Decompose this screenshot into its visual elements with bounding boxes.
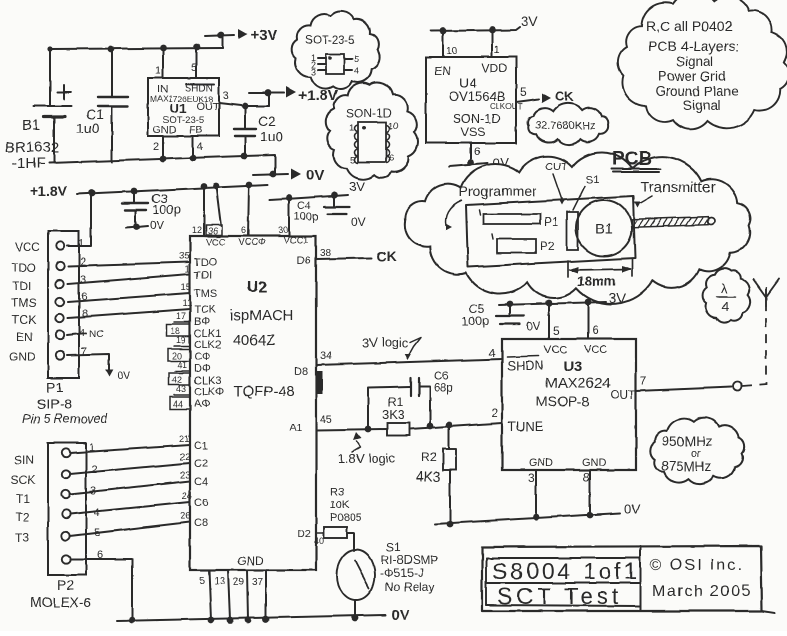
pin circle P1-4 xyxy=(56,298,64,306)
node pin4-0V xyxy=(190,155,197,162)
svg-text:VCC: VCC xyxy=(15,240,41,254)
power 3V rail U3 xyxy=(499,290,627,306)
node +3V junction xyxy=(218,32,225,39)
pin 37 U2 bottom xyxy=(252,570,266,620)
node rail P2-6 xyxy=(129,617,136,624)
pin circle P1-5 xyxy=(56,314,64,322)
wire P2 pin6 to 0V xyxy=(70,559,132,620)
pin 5 U4 CLKOUT xyxy=(516,85,539,102)
svg-text:OUT: OUT xyxy=(610,388,636,402)
node U3 gnd3 xyxy=(533,514,540,521)
svg-text:875MHz: 875MHz xyxy=(661,459,712,474)
callout cloud SON-1D xyxy=(326,83,418,180)
svg-text:+1.8V: +1.8V xyxy=(298,87,338,104)
svg-text:TMS: TMS xyxy=(11,296,36,310)
svg-text:MAX2624: MAX2624 xyxy=(545,375,611,392)
pin circle P2-1 xyxy=(62,449,70,457)
pin 13 U2 bottom xyxy=(214,570,230,620)
wire EN NC stub xyxy=(67,329,103,340)
svg-text:4064Z: 4064Z xyxy=(233,332,276,349)
svg-text:T2: T2 xyxy=(15,510,29,524)
svg-text:3V logic: 3V logic xyxy=(362,335,409,350)
node rail-B1 xyxy=(47,46,52,51)
pin 2 U1 xyxy=(153,136,163,159)
antenna symbol xyxy=(753,279,779,306)
node U4 pin10 tap xyxy=(440,28,447,35)
svg-text:SHDN: SHDN xyxy=(185,83,213,94)
svg-text:35: 35 xyxy=(179,251,190,262)
svg-text:7: 7 xyxy=(81,346,87,358)
pin circle P1-7 xyxy=(56,351,64,359)
callout cloud PCB layers xyxy=(618,0,787,129)
node pin2-0V xyxy=(160,156,167,163)
label CUT with arrow xyxy=(545,161,568,205)
svg-text:March 2005: March 2005 xyxy=(652,583,752,600)
label bottom 0V xyxy=(391,607,409,624)
node U4 pin1 tap xyxy=(489,27,496,34)
label PCB title xyxy=(611,149,661,172)
node 1.8V-pin12 xyxy=(201,183,208,190)
label P1 name xyxy=(22,379,109,426)
svg-text:2: 2 xyxy=(153,141,159,153)
pin 12 U2 xyxy=(192,186,204,236)
node 3V-C4 xyxy=(331,192,338,199)
pin circle P1-6 xyxy=(56,331,64,339)
svg-text:D8: D8 xyxy=(294,366,308,378)
svg-text:37: 37 xyxy=(252,577,264,588)
node R2 tap xyxy=(446,422,453,429)
wire 0V rail U3 xyxy=(435,501,640,524)
svg-text:1: 1 xyxy=(349,123,354,134)
svg-text:4: 4 xyxy=(197,141,203,153)
svg-text:PCB: PCB xyxy=(612,149,652,170)
svg-text:23: 23 xyxy=(180,470,191,481)
svg-text:40: 40 xyxy=(314,536,324,546)
pin 1 U1 xyxy=(155,49,163,78)
label P2 pins left xyxy=(11,453,36,545)
node C6 right xyxy=(427,423,434,430)
pin 5 U3 xyxy=(549,303,560,339)
power +1.8V rail xyxy=(30,183,268,199)
wire dashed to antenna xyxy=(743,306,766,386)
pin 3 U3 GND xyxy=(528,470,536,517)
svg-text:OUT: OUT xyxy=(196,101,220,113)
capacitor C6 xyxy=(368,371,453,429)
node rail-U1-SHDN xyxy=(194,44,201,51)
capacitor C3 xyxy=(122,191,181,232)
svg-text:CLK2: CLK2 xyxy=(194,339,222,351)
pin 36 U2 xyxy=(206,186,222,236)
svg-text:0V: 0V xyxy=(391,607,409,624)
svg-text:5: 5 xyxy=(191,62,197,74)
label P2 pin numbers xyxy=(89,442,103,561)
svg-text:34: 34 xyxy=(320,350,332,362)
svg-text:S1: S1 xyxy=(386,540,401,554)
capacitor C1 xyxy=(76,49,128,162)
pin 35 TDO U2 xyxy=(179,251,218,269)
svg-text:FB: FB xyxy=(189,124,202,136)
svg-text:B1: B1 xyxy=(595,221,613,238)
node 3V-U3pin6 xyxy=(585,299,592,306)
svg-text:1: 1 xyxy=(494,45,500,56)
svg-text:U3: U3 xyxy=(563,358,582,375)
svg-text:λ: λ xyxy=(721,281,728,296)
note 1.8V logic xyxy=(338,432,396,466)
svg-text:4: 4 xyxy=(722,299,729,314)
pin circle P2-2 xyxy=(62,470,70,478)
svg-text:3V: 3V xyxy=(521,13,539,29)
node 0V corner xyxy=(270,171,277,178)
svg-text:BR1632: BR1632 xyxy=(5,139,59,156)
node C6 left xyxy=(365,426,372,433)
svg-text:TDI: TDI xyxy=(194,270,212,282)
wire T2 to C6 xyxy=(70,491,208,514)
svg-text:5: 5 xyxy=(199,576,205,587)
svg-text:17: 17 xyxy=(176,311,186,321)
svg-text:+1.8V: +1.8V xyxy=(30,183,68,199)
svg-text:TQFP-48: TQFP-48 xyxy=(233,383,295,400)
svg-text:P1: P1 xyxy=(544,215,559,229)
svg-text:U1: U1 xyxy=(170,101,187,116)
svg-text:SCT Test: SCT Test xyxy=(497,583,623,609)
svg-text:TMS: TMS xyxy=(194,288,217,300)
callout cloud 950MHz xyxy=(650,418,744,484)
svg-text:-1HF: -1HF xyxy=(12,155,45,172)
pin 6 U3 xyxy=(588,302,599,339)
svg-text:BΦ: BΦ xyxy=(194,316,210,328)
wire +3V stub xyxy=(205,35,234,48)
svg-text:1u0: 1u0 xyxy=(260,128,284,144)
pin 41 D0 xyxy=(175,360,211,375)
svg-text:NC: NC xyxy=(89,329,103,340)
pin 45 A1 wire xyxy=(290,414,387,434)
svg-text:GND: GND xyxy=(529,457,554,469)
note 3V logic xyxy=(362,335,421,360)
svg-text:MSOP-8: MSOP-8 xyxy=(536,393,590,409)
label P1 pins left xyxy=(9,240,41,364)
node rail U2-5 xyxy=(208,617,215,624)
svg-text:15: 15 xyxy=(181,282,192,293)
svg-text:C8: C8 xyxy=(194,517,208,529)
svg-text:SHDN: SHDN xyxy=(507,358,544,373)
pin 4 U3 SHDN xyxy=(489,346,496,360)
wire U1 out to +1.8V xyxy=(219,93,284,106)
resistor R2 xyxy=(416,425,456,524)
node C2-0V xyxy=(241,153,248,160)
dimension 18mm xyxy=(568,259,632,289)
svg-text:1.8V logic: 1.8V logic xyxy=(338,451,396,466)
pin 17 B0 xyxy=(174,311,210,328)
svg-text:C6: C6 xyxy=(194,497,208,509)
svg-text:3K3: 3K3 xyxy=(382,407,405,422)
wire TDI xyxy=(68,274,190,284)
wire SIN to C1 xyxy=(70,434,208,453)
svg-text:PCB 4-Layers:: PCB 4-Layers: xyxy=(648,38,739,54)
svg-text:SCK: SCK xyxy=(11,473,36,487)
label Programmer with arrow xyxy=(446,183,538,230)
svg-text:AΦ: AΦ xyxy=(194,398,210,410)
svg-text:Transmitter: Transmitter xyxy=(640,179,715,196)
pin 11 TCK U2 xyxy=(182,298,217,316)
svg-text:C2: C2 xyxy=(194,458,208,470)
svg-text:4: 4 xyxy=(354,66,359,76)
connector P2 MOLEX-6 xyxy=(48,443,86,575)
wire GND P1 to 0V xyxy=(67,354,131,382)
pin 30 U2 xyxy=(278,198,289,236)
node rail-C1 xyxy=(108,46,115,53)
svg-text:P2: P2 xyxy=(540,239,555,253)
pin 34 D8 wire to U3 xyxy=(294,350,502,378)
svg-text:No Relay: No Relay xyxy=(385,580,434,594)
node U3 gnd8 xyxy=(587,512,594,519)
connector P1 SIP-8 xyxy=(48,231,79,378)
pin circle P1-2 xyxy=(56,262,64,270)
connector P1 footprint xyxy=(479,210,559,229)
pin 29 U2 bottom xyxy=(233,570,248,620)
svg-text:TDI: TDI xyxy=(12,279,31,293)
svg-text:0V: 0V xyxy=(526,319,541,333)
svg-text:CLKOUT: CLKOUT xyxy=(490,102,523,111)
svg-text:6: 6 xyxy=(592,323,599,337)
svg-text:32.7680KHz: 32.7680KHz xyxy=(535,120,596,132)
svg-text:VDD: VDD xyxy=(482,61,508,75)
node +1.8V riser xyxy=(265,90,272,97)
svg-text:VCC: VCC xyxy=(584,344,607,356)
wire bottom 0V rail xyxy=(117,615,385,621)
pin 3 U1 xyxy=(223,90,229,102)
wire TDO xyxy=(68,262,190,266)
battery B1 footprint xyxy=(576,200,632,256)
svg-text:GND: GND xyxy=(153,124,177,136)
node rail U2-13 xyxy=(227,617,234,624)
svg-text:7: 7 xyxy=(640,374,647,388)
svg-text:SOT-23-5: SOT-23-5 xyxy=(305,35,355,47)
svg-text:EN: EN xyxy=(434,64,451,78)
svg-text:TUNE: TUNE xyxy=(508,419,544,434)
svg-text:3: 3 xyxy=(528,471,535,485)
pin 44 A0 boxed xyxy=(170,397,210,410)
svg-text:Signal: Signal xyxy=(683,98,721,113)
svg-text:68p: 68p xyxy=(434,383,453,395)
svg-text:5: 5 xyxy=(350,155,355,166)
node 3V-U3pin5 xyxy=(546,300,553,307)
svg-text:10: 10 xyxy=(446,46,458,57)
svg-text:T3: T3 xyxy=(15,531,29,545)
svg-text:2: 2 xyxy=(91,464,97,476)
pin 2 U3 TUNE xyxy=(491,406,498,420)
pin circle P2-5 xyxy=(62,532,70,540)
svg-text:1: 1 xyxy=(185,264,190,275)
svg-text:TDO: TDO xyxy=(194,257,218,269)
svg-text:R,C all P0402: R,C all P0402 xyxy=(646,18,733,34)
pin circle P1-3 xyxy=(56,280,64,288)
svg-text:36: 36 xyxy=(208,226,218,236)
node 1.8V-pin36 xyxy=(213,183,220,190)
svg-text:29: 29 xyxy=(233,577,245,588)
svg-text:TCK: TCK xyxy=(12,313,36,327)
pin 1 U4 xyxy=(492,30,500,57)
callout cloud lambda/4 xyxy=(703,269,751,323)
pin 18 CLK1 boxed xyxy=(166,324,222,340)
IC U2 ispMACH 4064Z xyxy=(190,235,316,570)
svg-text:Signal: Signal xyxy=(676,54,714,69)
node R2 gnd xyxy=(447,521,454,528)
svg-text:CLKΦ: CLKΦ xyxy=(194,386,224,398)
power +1.8V arrow xyxy=(286,87,338,105)
resistor R3 xyxy=(324,486,362,551)
node 1.8V-C3 xyxy=(131,188,138,195)
capacitor C2 xyxy=(234,106,284,156)
svg-text:0V: 0V xyxy=(117,370,131,382)
wire 3V rail U4 xyxy=(431,13,539,31)
IC U3 MAX2624 xyxy=(502,339,636,470)
svg-text:D6: D6 xyxy=(297,255,311,267)
wire SCK to C2 xyxy=(70,452,208,474)
svg-text:4: 4 xyxy=(489,346,496,360)
svg-text:3: 3 xyxy=(223,90,229,102)
svg-text:Pin 5 Removed: Pin 5 Removed xyxy=(22,412,109,426)
svg-text:1: 1 xyxy=(78,238,84,250)
svg-text:SON-1D: SON-1D xyxy=(346,106,392,120)
svg-text:30: 30 xyxy=(278,225,288,235)
svg-text:43: 43 xyxy=(176,384,186,394)
svg-text:8: 8 xyxy=(583,470,590,484)
svg-text:5: 5 xyxy=(553,324,560,338)
svg-text:R2: R2 xyxy=(421,450,437,464)
pin 5 U1 xyxy=(191,49,197,78)
svg-text:12: 12 xyxy=(192,225,202,235)
label Transmitter with arrow xyxy=(634,179,716,208)
svg-text:MOLEX-6: MOLEX-6 xyxy=(30,594,92,610)
svg-text:8: 8 xyxy=(82,308,88,320)
svg-text:S8004 1of1: S8004 1of1 xyxy=(492,558,640,584)
PCB board outline xyxy=(466,196,635,267)
pin 6 U4 VSS xyxy=(471,143,480,162)
svg-text:C6: C6 xyxy=(434,371,449,383)
svg-text:U2: U2 xyxy=(247,279,268,296)
node rail U2-37 xyxy=(263,616,270,623)
callout cloud PCB board xyxy=(405,153,751,304)
node rail U2-29 xyxy=(245,617,252,624)
svg-text:10: 10 xyxy=(388,121,399,132)
svg-text:1: 1 xyxy=(155,65,161,77)
pin 20 C0 boxed xyxy=(168,349,211,363)
power 0V arrow top-left xyxy=(291,167,324,184)
svg-text:P2: P2 xyxy=(57,577,74,593)
svg-text:P0805: P0805 xyxy=(330,512,362,524)
switch S1 footprint xyxy=(567,212,578,250)
svg-text:ispMACH: ispMACH xyxy=(230,307,293,324)
pin 40 D2 xyxy=(298,529,324,546)
node 3V-pin30 xyxy=(286,195,293,202)
wire top rail B1/C1/U1 xyxy=(50,48,223,49)
svg-text:2: 2 xyxy=(491,406,498,420)
svg-text:6: 6 xyxy=(241,225,246,235)
antenna trace on PCB xyxy=(632,217,715,228)
callout cloud 32.7680KHz xyxy=(528,103,609,145)
svg-text:Programmer: Programmer xyxy=(459,183,537,199)
pin 4 U1 xyxy=(193,136,203,158)
svg-text:VCC1: VCC1 xyxy=(283,235,308,246)
svg-text:C1: C1 xyxy=(194,440,208,452)
svg-text:S1: S1 xyxy=(586,174,599,186)
svg-text:44: 44 xyxy=(173,399,183,409)
svg-text:CΦ: CΦ xyxy=(194,351,211,363)
svg-text:C4: C4 xyxy=(194,476,208,488)
label S1 with arrow xyxy=(573,174,599,210)
svg-text:B1: B1 xyxy=(22,117,40,134)
pin 38 D6 with CK xyxy=(297,248,396,267)
pin circle P2-6 xyxy=(62,555,70,563)
pin 43 CLK0 xyxy=(174,384,224,398)
switch S1 clock symbol xyxy=(337,550,375,618)
node 1.8V-pin6 xyxy=(246,182,253,189)
svg-text:R3: R3 xyxy=(330,486,344,498)
svg-text:SIN: SIN xyxy=(14,453,34,467)
svg-text:21: 21 xyxy=(179,434,190,445)
svg-text:T1: T1 xyxy=(16,492,30,506)
svg-text:-Φ515-J: -Φ515-J xyxy=(380,566,424,580)
svg-text:VCC: VCC xyxy=(544,344,567,356)
svg-text:0V: 0V xyxy=(351,215,366,229)
svg-text:SIP-8: SIP-8 xyxy=(37,396,72,412)
pin 6 U2 xyxy=(241,185,249,236)
battery B1 xyxy=(5,49,71,172)
node OUT terminal xyxy=(734,382,743,391)
svg-text:SON-1D: SON-1D xyxy=(453,112,500,126)
svg-text:0V: 0V xyxy=(306,167,324,184)
svg-text:© OSI Inc.: © OSI Inc. xyxy=(650,557,744,574)
svg-text:0V: 0V xyxy=(150,218,165,232)
svg-text:950MHz: 950MHz xyxy=(662,434,713,449)
signal CK from U4 xyxy=(542,89,574,104)
svg-text:11: 11 xyxy=(182,298,192,309)
svg-text:5: 5 xyxy=(354,54,359,64)
svg-text:45: 45 xyxy=(320,414,332,426)
title text S8004 xyxy=(492,557,752,609)
pin 19 CLK2 xyxy=(174,335,222,351)
pin 42 CLK3 boxed xyxy=(169,373,222,387)
pin 8 U3 GND xyxy=(583,470,590,515)
svg-text:GND: GND xyxy=(582,457,607,469)
pin circle P2-4 xyxy=(62,510,70,518)
svg-text:3: 3 xyxy=(311,67,316,77)
svg-text:CK: CK xyxy=(555,89,574,104)
IC U1 MAX1726 regulator xyxy=(148,78,220,136)
svg-text:5: 5 xyxy=(520,85,527,99)
pin 10 U4 xyxy=(443,31,458,57)
svg-text:+3V: +3V xyxy=(250,27,277,44)
power 3V rail U2 xyxy=(270,179,365,200)
connector P2 footprint xyxy=(492,234,555,253)
svg-text:EN: EN xyxy=(16,330,33,344)
wire TCK xyxy=(68,309,190,318)
svg-text:3V: 3V xyxy=(349,179,365,194)
svg-text:6: 6 xyxy=(474,146,480,158)
svg-text:6: 6 xyxy=(389,153,394,164)
callout cloud SOT-23-5 xyxy=(292,11,380,89)
label P2 name xyxy=(30,577,92,610)
svg-text:19: 19 xyxy=(176,335,186,345)
svg-text:Power Grid: Power Grid xyxy=(658,69,726,84)
svg-text:VCCΦ: VCCΦ xyxy=(238,237,266,248)
svg-text:3V: 3V xyxy=(609,290,627,306)
ground 0V U4 xyxy=(449,155,509,170)
svg-text:41: 41 xyxy=(177,360,187,370)
svg-text:22: 22 xyxy=(180,452,191,463)
node rail-U1-IN xyxy=(160,45,167,52)
svg-text:GND: GND xyxy=(9,350,36,364)
